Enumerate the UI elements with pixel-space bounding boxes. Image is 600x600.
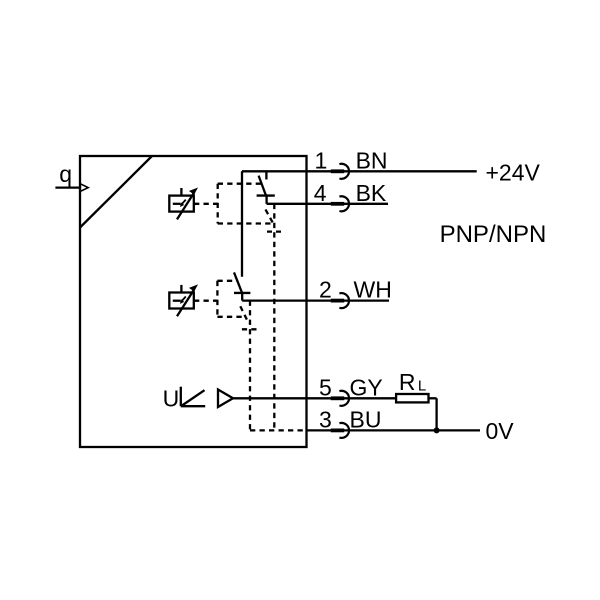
svg-text:GY: GY — [350, 374, 383, 400]
switch S2 — [234, 272, 250, 300]
dashed actuator box 2 — [217, 281, 243, 317]
flow sensor diagonal — [80, 156, 152, 228]
wire pin 2 — [242, 299, 389, 301]
op-amp buffer triangle — [218, 390, 233, 408]
svg-text:4: 4 — [314, 180, 327, 206]
wire +24V rail (pin 1) — [242, 170, 477, 172]
svg-text:q: q — [59, 161, 72, 187]
connector pin 2 — [331, 293, 349, 308]
svg-text:0V: 0V — [486, 418, 515, 444]
input q arrow — [55, 184, 88, 192]
svg-text:BK: BK — [356, 180, 387, 206]
sensor enclosure box — [80, 156, 307, 447]
dashed actuator box 1 — [218, 184, 272, 224]
wire pin 4 — [267, 203, 388, 205]
adjuster P1 (upper setpoint) — [169, 188, 197, 219]
connector pin 5 — [331, 391, 349, 406]
dashed link P2 to actuator box 2 — [194, 300, 217, 302]
adjuster P2 (lower setpoint) — [169, 285, 197, 316]
dashed link S1 to 0V rail — [266, 204, 282, 431]
svg-text:2: 2 — [319, 277, 332, 303]
dashed 0V rail inside box — [250, 429, 307, 431]
dashed link S2 to 0V rail — [240, 301, 257, 431]
wire pin 5 — [233, 397, 396, 399]
wire RL to junction — [429, 398, 437, 430]
junction node — [434, 427, 440, 433]
svg-text:5: 5 — [319, 374, 332, 400]
switch S1 — [257, 171, 275, 204]
svg-text:WH: WH — [354, 277, 392, 303]
svg-text:+24V: +24V — [486, 159, 541, 185]
svg-text:1: 1 — [315, 147, 328, 173]
resistor RL — [396, 394, 428, 402]
wire branch vertical — [241, 171, 243, 276]
connector pin 1 — [331, 164, 349, 179]
svg-text:U: U — [163, 385, 180, 411]
svg-text:BN: BN — [356, 147, 388, 173]
connector pin 3 — [331, 423, 349, 438]
analog ramp icon — [181, 387, 205, 407]
connector pin 4 — [331, 196, 349, 211]
svg-text:BU: BU — [350, 406, 382, 432]
svg-text:PNP/NPN: PNP/NPN — [440, 221, 547, 248]
wire pin 3 / 0V — [307, 429, 481, 431]
dashed link P1 to actuator box 1 — [194, 203, 218, 205]
svg-text:3: 3 — [319, 406, 332, 432]
